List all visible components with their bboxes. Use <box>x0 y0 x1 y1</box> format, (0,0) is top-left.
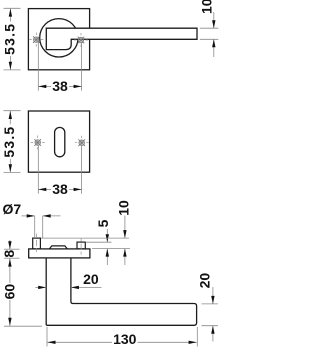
dimension 60 (fig3 left, handle drop) <box>4 259 42 327</box>
dimension 20 (neck width) <box>35 286 101 288</box>
screw (right, front view) <box>74 33 88 47</box>
svg-text:Ø7: Ø7 <box>3 201 22 217</box>
dimension 53.5 (fig2 left) <box>4 111 21 173</box>
svg-text:53.5: 53.5 <box>1 23 17 55</box>
screw boss left (side) <box>33 238 41 249</box>
svg-text:60: 60 <box>1 284 17 300</box>
centerline left boss <box>36 234 38 253</box>
svg-text:38: 38 <box>52 181 68 197</box>
svg-text:20: 20 <box>83 271 99 287</box>
rose circular boss <box>40 19 78 57</box>
dimension 5 (right boss height) <box>86 229 131 265</box>
dimension 130 (lever length) <box>47 327 197 347</box>
svg-text:53.5: 53.5 <box>1 126 17 158</box>
svg-text:20: 20 <box>196 273 212 289</box>
dimension 38 (fig1 bottom) <box>38 42 81 91</box>
svg-text:10: 10 <box>115 200 131 216</box>
escutcheon square plate <box>28 111 89 172</box>
dimension 8 (fig3 left, plate thickness) <box>4 240 20 258</box>
centerline right boss <box>80 239 82 255</box>
dimension 38 (fig2 bottom) <box>38 146 81 194</box>
screw (left, front view) <box>29 33 43 47</box>
svg-text:38: 38 <box>52 78 68 94</box>
lever handle outline (front view) <box>46 28 197 49</box>
rose square plate (front) <box>28 9 89 70</box>
svg-text:10: 10 <box>199 0 215 14</box>
screw (left, escutcheon) <box>31 136 45 150</box>
svg-text:5: 5 <box>95 219 111 227</box>
dimension 10 (left boss height) <box>41 216 129 266</box>
dimension 53.5 (fig1 left) <box>4 8 21 70</box>
dimension 10 (fig1 right, lever bar height) <box>200 12 219 57</box>
screw (right, escutcheon) <box>75 136 89 150</box>
svg-text:130: 130 <box>113 331 137 347</box>
dimension 20 (lever height right) <box>202 287 219 342</box>
spindle hub (side) <box>49 246 67 249</box>
screw boss right (side) <box>77 242 85 249</box>
keyhole slot (oval) <box>55 127 65 156</box>
rose plate (side) <box>29 249 90 258</box>
lever handle outline (side view) <box>46 258 196 325</box>
svg-text:8: 8 <box>1 250 17 258</box>
